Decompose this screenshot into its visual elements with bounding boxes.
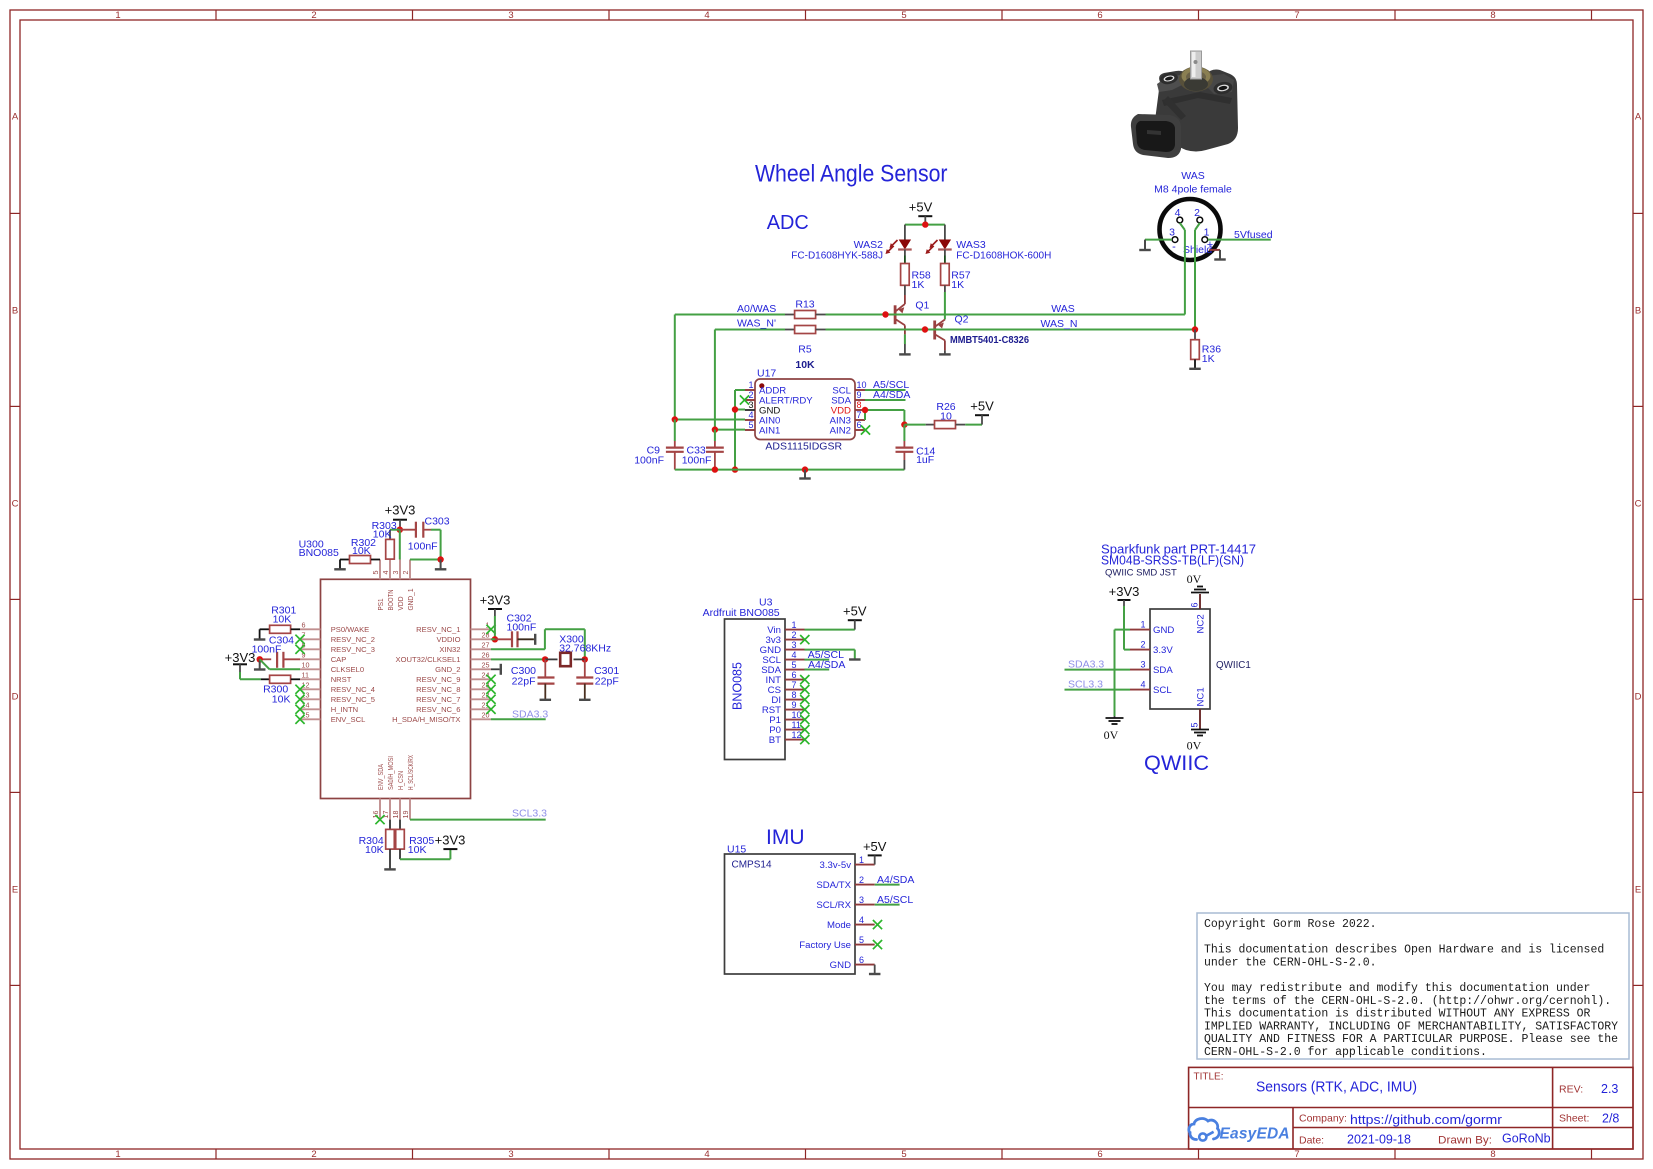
svg-text:6: 6 xyxy=(792,670,797,680)
resistor R304 xyxy=(386,820,395,870)
no-connect U300 pin24 xyxy=(486,675,495,684)
svg-text:6: 6 xyxy=(859,955,864,965)
resistor R301 xyxy=(260,625,300,639)
junction at CAP pin net xyxy=(257,656,263,662)
wire QWIIC GND xyxy=(1115,630,1131,718)
wire H_SCL to SCL3.3 xyxy=(410,819,546,821)
junction at Q1 base xyxy=(882,311,888,317)
svg-text:ADS1115IDGSR: ADS1115IDGSR xyxy=(765,440,842,452)
svg-text:under the CERN-OHL-S-2.0.: under the CERN-OHL-S-2.0. xyxy=(1204,956,1377,969)
junction VDDIO node xyxy=(492,636,498,642)
ground sideways at GND_2 xyxy=(491,664,501,675)
svg-text:1: 1 xyxy=(792,620,797,630)
svg-text:Shield: Shield xyxy=(1183,244,1212,256)
svg-text:Copyright Gorm Rose 2022.: Copyright Gorm Rose 2022. xyxy=(1204,918,1377,931)
svg-text:8: 8 xyxy=(857,400,862,410)
label R36 1K xyxy=(1202,343,1221,365)
svg-text:MMBT5401-C8326: MMBT5401-C8326 xyxy=(950,335,1030,346)
junction GND rail tap xyxy=(802,466,808,472)
junction crystal right xyxy=(582,656,588,662)
title IMU xyxy=(766,826,805,849)
junction crystal left xyxy=(542,656,548,662)
svg-text:the terms of the CERN-OHL-S-2.: the terms of the CERN-OHL-S-2.0. (http:/… xyxy=(1204,995,1611,1008)
earth ground 0V at QWIIC GND xyxy=(1104,718,1124,742)
svg-text:BNO085: BNO085 xyxy=(299,547,339,559)
transistor Q2 xyxy=(935,320,945,355)
svg-text:0V: 0V xyxy=(1187,739,1202,753)
svg-text:WAS: WAS xyxy=(1181,170,1205,182)
net label WAS_N xyxy=(1041,318,1078,330)
resistor R302 xyxy=(340,556,380,570)
svg-text:+3V3: +3V3 xyxy=(435,832,466,847)
svg-text:9: 9 xyxy=(792,700,797,710)
svg-text:RESV_NC_1: RESV_NC_1 xyxy=(416,625,460,634)
junction at U17 GND pin xyxy=(732,406,738,412)
wire U15 GND xyxy=(874,965,876,974)
junction AIN0 xyxy=(672,416,678,422)
label R304 10K xyxy=(359,835,384,856)
no-connect U3 pin8 xyxy=(800,695,809,704)
svg-text:10: 10 xyxy=(940,411,952,423)
svg-text:Company:: Company: xyxy=(1299,1113,1347,1125)
svg-text:SA0/H_MOSI: SA0/H_MOSI xyxy=(386,756,395,790)
svg-text:B: B xyxy=(12,306,18,317)
svg-text:Q1: Q1 xyxy=(915,300,929,312)
wire U15 SDA/TX xyxy=(875,884,900,886)
svg-text:1: 1 xyxy=(115,10,120,21)
earth ground 0V below pin5 xyxy=(1187,730,1209,753)
capacitor C300 xyxy=(538,659,555,699)
wire R26 to +5V xyxy=(965,424,982,426)
no-connect U3 pin7 xyxy=(800,685,809,694)
svg-text:EasyEDA: EasyEDA xyxy=(1220,1126,1290,1143)
wire Shield to ground xyxy=(1209,249,1220,251)
ground at C304 node xyxy=(254,659,266,669)
svg-text:A0/WAS: A0/WAS xyxy=(737,303,776,315)
label C302 100nF xyxy=(507,613,537,634)
svg-text:5: 5 xyxy=(859,935,864,945)
junction AIN1 xyxy=(712,426,718,432)
svg-text:VDD: VDD xyxy=(396,596,405,610)
power +5V at U15 xyxy=(863,839,887,865)
svg-text:SCL3.3: SCL3.3 xyxy=(1068,679,1103,691)
svg-text:A4/SDA: A4/SDA xyxy=(877,874,914,886)
wire SCL to A5/SCL xyxy=(865,389,906,391)
svg-text:D: D xyxy=(12,692,19,703)
svg-text:REV:: REV: xyxy=(1559,1084,1583,1096)
svg-text:1: 1 xyxy=(1204,227,1210,239)
svg-text:NC1: NC1 xyxy=(1195,687,1206,706)
wire XIN32 loop xyxy=(491,629,585,659)
svg-text:+3V3: +3V3 xyxy=(1109,584,1140,599)
svg-text:AIN2: AIN2 xyxy=(830,425,851,436)
svg-text:A: A xyxy=(12,112,19,123)
ground at rail xyxy=(799,470,811,479)
label Q1 xyxy=(915,300,929,312)
ground at C300 xyxy=(540,699,552,701)
svg-text:100nF: 100nF xyxy=(682,454,712,466)
label U300 BNO085 xyxy=(299,539,339,559)
label SM04B-SRSS-TB(LF)(SN) xyxy=(1101,553,1244,568)
wire R5 to Q2 base and WAS_N net xyxy=(826,329,1196,331)
no-connect U300 pin12 xyxy=(295,685,304,694)
svg-text:6: 6 xyxy=(1097,1149,1102,1160)
svg-text:1: 1 xyxy=(859,855,864,865)
svg-text:10K: 10K xyxy=(373,529,392,541)
svg-text:2: 2 xyxy=(748,390,753,400)
svg-text:11: 11 xyxy=(792,720,801,730)
svg-text:GND_1: GND_1 xyxy=(406,589,415,611)
ground at Q1 collector xyxy=(899,353,911,355)
svg-text:M8 4pole female: M8 4pole female xyxy=(1154,184,1232,196)
label WAS2 xyxy=(854,239,884,251)
svg-text:SDA: SDA xyxy=(1153,665,1173,676)
svg-text:R5: R5 xyxy=(798,344,812,356)
ground at Q2 collector xyxy=(939,353,951,355)
svg-text:22pF: 22pF xyxy=(512,675,536,687)
svg-text:+5V: +5V xyxy=(843,604,867,619)
label C300 22pF xyxy=(511,665,536,687)
resistor R305 xyxy=(396,820,405,860)
wire WAS pin4 to WAS net xyxy=(1180,223,1185,315)
svg-text:GoRoNb: GoRoNb xyxy=(1502,1132,1551,1146)
svg-text:TITLE:: TITLE: xyxy=(1194,1072,1224,1083)
junction at +5V rail xyxy=(922,221,928,227)
svg-text:ENV_SCL: ENV_SCL xyxy=(331,715,366,724)
label WAS3 xyxy=(956,239,986,251)
wire VDD to R26 xyxy=(904,424,925,426)
svg-text:5: 5 xyxy=(1190,722,1200,727)
svg-text:SCL: SCL xyxy=(1153,685,1172,696)
svg-text:1: 1 xyxy=(1140,620,1145,630)
svg-text:7: 7 xyxy=(1294,10,1299,21)
wire H_SDA to SDA3.3 xyxy=(491,718,546,720)
connector U3 Ardfruit BNO085 body xyxy=(725,619,805,760)
svg-text:FC-D1608HOK-600H: FC-D1608HOK-600H xyxy=(956,251,1051,262)
svg-text:Date:: Date: xyxy=(1299,1135,1324,1147)
title QWIIC xyxy=(1144,752,1209,775)
svg-text:1uF: 1uF xyxy=(916,454,934,466)
wire R13 to Q1 base and WAS net xyxy=(826,314,1185,316)
svg-text:4: 4 xyxy=(748,410,753,420)
svg-text:10: 10 xyxy=(857,380,867,390)
svg-text:SCL/RX: SCL/RX xyxy=(816,900,851,911)
svg-text:C303: C303 xyxy=(425,515,450,527)
svg-text:RESV_NC_3: RESV_NC_3 xyxy=(331,645,375,654)
net label WAS_N' xyxy=(737,318,776,330)
svg-text:PS0/WAKE: PS0/WAKE xyxy=(331,625,370,634)
label Q2 xyxy=(955,314,969,326)
label QWIIC SMD JST xyxy=(1105,568,1177,579)
svg-text:ADC: ADC xyxy=(767,211,809,234)
svg-text:+3V3: +3V3 xyxy=(225,650,256,665)
label C301 22pF xyxy=(594,665,619,687)
no-connect U300 pin16 xyxy=(375,815,384,824)
svg-text:5: 5 xyxy=(901,10,906,21)
ground at U3 GND xyxy=(849,658,861,660)
svg-text:8: 8 xyxy=(1490,10,1495,21)
svg-text:2: 2 xyxy=(859,875,864,885)
svg-text:6: 6 xyxy=(302,621,306,630)
resistor R5 xyxy=(785,326,826,334)
no-connect U15 pin4 xyxy=(873,920,882,929)
power +3V3 bottom xyxy=(435,832,466,849)
IC U300 BNO085 body xyxy=(300,560,491,820)
no-connect U300 pin22 xyxy=(486,695,495,704)
label R58 1K xyxy=(912,270,931,292)
svg-text:100nF: 100nF xyxy=(507,621,537,633)
wire WAS pin2 to WAS_N net xyxy=(1195,223,1200,330)
wire AIN0 xyxy=(675,419,745,421)
svg-text:3.3V: 3.3V xyxy=(1153,645,1173,656)
svg-text:H_SCL/SCK/RX: H_SCL/SCK/RX xyxy=(406,755,415,790)
title ADC xyxy=(767,211,809,234)
svg-text:7: 7 xyxy=(792,680,797,690)
svg-text:2021-09-18: 2021-09-18 xyxy=(1347,1133,1411,1147)
IC U15 CMPS14 body xyxy=(725,854,875,974)
capacitor C14 xyxy=(896,425,914,470)
svg-text:A4/SDA: A4/SDA xyxy=(873,389,910,401)
wire rail to WAS2 anode xyxy=(904,225,906,240)
no-connect U300 pin8 xyxy=(295,645,304,654)
svg-text:This documentation is distribu: This documentation is distributed WITHOU… xyxy=(1204,1008,1591,1021)
no-connect U300 pin13 xyxy=(295,695,304,704)
junction VDD node xyxy=(901,421,907,427)
resistor R58 xyxy=(901,264,910,305)
svg-text:RESV_NC_2: RESV_NC_2 xyxy=(331,635,375,644)
power +3V3 left xyxy=(225,650,256,680)
net label A4/SDA at U15 xyxy=(877,874,914,886)
svg-text:4: 4 xyxy=(704,10,709,21)
svg-text:2: 2 xyxy=(792,630,797,640)
wire +3V3 to R300 xyxy=(240,678,261,680)
svg-text:D: D xyxy=(1635,692,1642,703)
wire VDD pin3 drop xyxy=(399,530,401,560)
svg-text:RESV_NC_6: RESV_NC_6 xyxy=(416,705,460,714)
ground at U15 xyxy=(869,973,881,975)
net label SDA3.3 xyxy=(512,708,548,720)
label QWIIC1 xyxy=(1216,660,1251,671)
svg-text:19: 19 xyxy=(401,811,410,819)
svg-text:PS1: PS1 xyxy=(376,599,385,611)
resistor R36 xyxy=(1191,330,1200,369)
svg-text:3: 3 xyxy=(391,571,400,575)
svg-text:VDDIO: VDDIO xyxy=(436,635,460,644)
label X300 32.768KHz xyxy=(559,634,611,655)
svg-text:WAS3: WAS3 xyxy=(956,239,986,251)
net label A4/SDA xyxy=(873,389,910,401)
svg-text:WAS_N': WAS_N' xyxy=(737,318,776,330)
svg-text:3: 3 xyxy=(508,1149,513,1160)
label R305 10K xyxy=(408,835,435,856)
junction +3V3 top node xyxy=(397,527,403,533)
net label A0/WAS xyxy=(737,303,776,315)
svg-text:1K: 1K xyxy=(1202,353,1215,365)
svg-text:9: 9 xyxy=(857,390,862,400)
no-connect U300 pin23 xyxy=(486,685,495,694)
wire U3 SCL xyxy=(805,659,830,661)
label C303 100nF xyxy=(408,515,450,552)
svg-text:11: 11 xyxy=(302,671,309,680)
svg-text:0V: 0V xyxy=(1104,728,1119,742)
svg-text:SCL3.3: SCL3.3 xyxy=(512,808,547,820)
svg-text:5: 5 xyxy=(748,420,753,430)
svg-text:3: 3 xyxy=(508,10,513,21)
svg-text:WAS2: WAS2 xyxy=(854,239,884,251)
svg-text:NC2: NC2 xyxy=(1195,614,1206,633)
no-connect U3 pin11 xyxy=(800,725,809,734)
svg-text:-: - xyxy=(1172,241,1176,253)
svg-text:32.768KHz: 32.768KHz xyxy=(559,643,611,655)
wire pin3 to ground xyxy=(1145,239,1172,241)
junction GND rail x735 xyxy=(732,466,738,472)
ground at WAS pin3 xyxy=(1139,240,1151,250)
svg-text:Ardfruit BNO085: Ardfruit BNO085 xyxy=(703,607,780,619)
svg-text:QWIIC SMD JST: QWIIC SMD JST xyxy=(1105,568,1177,579)
svg-text:1K: 1K xyxy=(912,279,925,291)
svg-text:BOOTN: BOOTN xyxy=(386,590,395,611)
no-connect U300 pin1 xyxy=(486,625,495,634)
svg-text:A5/SCL: A5/SCL xyxy=(877,894,913,906)
svg-text:RESV_NC_5: RESV_NC_5 xyxy=(331,695,375,704)
no-connect U15 pin5 xyxy=(873,940,882,949)
LED WAS2 xyxy=(886,240,912,264)
svg-text:5: 5 xyxy=(792,660,797,670)
label R301 10K xyxy=(271,605,296,626)
svg-text:BNO085: BNO085 xyxy=(731,662,745,710)
LED WAS3 xyxy=(926,240,952,264)
ground sideways at C302 xyxy=(534,634,536,645)
svg-text:RESV_NC_8: RESV_NC_8 xyxy=(416,685,460,694)
label C14 1uF xyxy=(916,446,935,466)
no-connect U300 pin14 xyxy=(295,705,304,714)
svg-text:C: C xyxy=(1635,499,1642,510)
svg-text:GND: GND xyxy=(830,960,851,971)
resistor R13 xyxy=(785,311,826,319)
net label WAS xyxy=(1051,303,1075,315)
wire rail to WAS3 anode xyxy=(944,225,946,240)
svg-text:BT: BT xyxy=(769,735,781,746)
svg-text:8: 8 xyxy=(1490,1149,1495,1160)
svg-text:GND: GND xyxy=(1153,625,1174,636)
wire U3 GND xyxy=(805,650,855,660)
svg-text:E: E xyxy=(12,885,18,896)
ground at R304 xyxy=(384,868,396,870)
power +3V3 right xyxy=(480,593,511,640)
label Ardfruit BNO085 xyxy=(703,607,780,619)
svg-text:XOUT32/CLKSEL1: XOUT32/CLKSEL1 xyxy=(396,655,461,664)
svg-text:18: 18 xyxy=(391,811,400,819)
capacitor C301 xyxy=(576,659,593,699)
svg-text:100nF: 100nF xyxy=(252,644,282,656)
svg-text:This documentation describes O: This documentation describes Open Hardwa… xyxy=(1204,944,1604,957)
svg-text:27: 27 xyxy=(482,641,490,650)
net label A5/SCL at U3 xyxy=(808,649,844,661)
earth ground 0V above pin6 xyxy=(1187,572,1209,593)
power +5V at R26 xyxy=(970,399,994,425)
net label A4/SDA at U3 xyxy=(808,659,845,671)
svg-text:A4/SDA: A4/SDA xyxy=(808,659,845,671)
svg-text:U17: U17 xyxy=(757,368,776,380)
svg-text:0V: 0V xyxy=(1187,572,1202,586)
svg-text:C: C xyxy=(12,499,19,510)
label FC-D1608HYK-588J xyxy=(791,251,883,262)
svg-text:4: 4 xyxy=(859,915,864,925)
svg-text:QWIIC: QWIIC xyxy=(1144,752,1209,775)
net label A5/SCL at U15 xyxy=(877,894,913,906)
power +5V at LED rail xyxy=(909,200,933,225)
svg-text:10K: 10K xyxy=(273,614,292,626)
svg-text:26: 26 xyxy=(482,651,490,660)
no-connect U300 pin15 xyxy=(295,715,304,724)
svg-text:1: 1 xyxy=(748,380,753,390)
svg-text:Mode: Mode xyxy=(827,920,851,931)
ground at WAS Shield xyxy=(1214,250,1226,260)
junction at WAS_N R36 xyxy=(1192,326,1198,332)
connector WAS M8 4pole female xyxy=(1154,170,1232,260)
ground at C301 xyxy=(579,699,591,701)
svg-text:25: 25 xyxy=(482,661,490,670)
svg-text:22pF: 22pF xyxy=(595,675,619,687)
capacitor C33 xyxy=(706,430,724,470)
svg-text:RESV_NC_4: RESV_NC_4 xyxy=(331,685,375,694)
label R57 1K xyxy=(951,270,970,292)
svg-text:Wheel Angle Sensor: Wheel Angle Sensor xyxy=(755,161,948,188)
label ADS1115IDGSR xyxy=(765,440,842,452)
svg-text:24: 24 xyxy=(482,671,490,680)
svg-text:B: B xyxy=(1635,306,1641,317)
svg-text:+5V: +5V xyxy=(863,839,887,854)
wire C303 to GND_1 xyxy=(410,530,441,560)
svg-text:FC-D1608HYK-588J: FC-D1608HYK-588J xyxy=(791,251,883,262)
svg-text:12: 12 xyxy=(302,681,310,690)
wire SDA to A4/SDA xyxy=(865,399,906,401)
svg-text:8: 8 xyxy=(792,690,797,700)
svg-text:CAP: CAP xyxy=(331,655,347,664)
no-connect U3 pin6 xyxy=(800,675,809,684)
crystal X300 xyxy=(545,653,585,666)
label MMBT5401-C8326 xyxy=(950,335,1030,346)
svg-text:2: 2 xyxy=(1194,207,1200,219)
svg-text:+5V: +5V xyxy=(909,200,933,215)
svg-text:+3V3: +3V3 xyxy=(385,503,416,518)
wire VDD net xyxy=(865,410,904,425)
svg-text:GND_2: GND_2 xyxy=(435,665,460,674)
svg-text:3: 3 xyxy=(1169,227,1175,239)
label Sparkfunk part PRT-14417 xyxy=(1101,542,1256,557)
resistor R26 xyxy=(926,421,966,429)
no-connect U300 pin21 xyxy=(486,705,495,714)
svg-text:5: 5 xyxy=(901,1149,906,1160)
no-connect U3 pin10 xyxy=(800,715,809,724)
svg-text:10K: 10K xyxy=(365,844,384,856)
title block xyxy=(1189,1067,1633,1149)
capacitor C303 xyxy=(400,522,441,538)
copyright text box xyxy=(1197,913,1629,1059)
capacitor C302 xyxy=(491,631,534,647)
label R13 xyxy=(795,299,814,311)
op-amp U17 ADS1115IDGSR body xyxy=(745,379,867,440)
net label SDA3.3 at QWIIC xyxy=(1068,659,1104,671)
svg-text:10K: 10K xyxy=(795,359,815,371)
svg-text:RESV_NC_7: RESV_NC_7 xyxy=(416,695,460,704)
svg-text:3: 3 xyxy=(859,895,864,905)
transistor Q1 xyxy=(895,304,905,354)
no-connect U3 pin2 xyxy=(800,635,809,644)
svg-text:A: A xyxy=(1635,112,1642,123)
wire CLKSEL0 diagonal xyxy=(260,659,300,669)
svg-text:7: 7 xyxy=(1294,1149,1299,1160)
